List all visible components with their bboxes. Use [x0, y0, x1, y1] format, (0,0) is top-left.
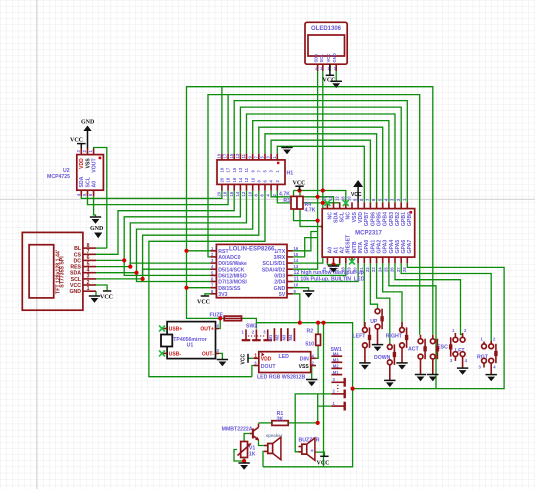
svg-text:ST7735S SPI: ST7735S SPI — [60, 256, 66, 288]
ground earth below ACT — [415, 375, 426, 382]
svg-text:MCP2317: MCP2317 — [355, 231, 382, 237]
svg-text:RES: RES — [70, 265, 81, 271]
svg-text:SCL: SCL — [71, 277, 82, 283]
svg-text:M1: M1 — [268, 334, 273, 340]
svg-text:SDA: SDA — [333, 212, 339, 223]
svg-text:GPB6: GPB6 — [370, 212, 376, 226]
svg-text:19: 19 — [347, 267, 352, 272]
wire net ESP D4 to MCP INTA — [293, 263, 358, 281]
svg-text:USB+: USB+ — [169, 327, 183, 333]
svg-text:11: 11 — [244, 167, 249, 172]
svg-text:SDA/4/D2: SDA/4/D2 — [262, 267, 285, 273]
ground earth below TP4056 OUT- — [217, 360, 228, 367]
slide switch SW2 — [242, 324, 273, 341]
ground earth below LEFT — [359, 363, 370, 370]
svg-text:D5/14/SCK: D5/14/SCK — [218, 267, 244, 273]
svg-text:D7/13/MOSI: D7/13/MOSI — [218, 280, 247, 286]
svg-text:GND: GND — [81, 120, 95, 126]
wire net H1 pin14 to TFT DC and branch ESP D6 — [96, 191, 240, 276]
wire net VCC to R3 R4 tops and MCP NC pin — [294, 187, 346, 202]
svg-text:5: 5 — [87, 261, 90, 267]
svg-text:20: 20 — [353, 267, 358, 272]
wire net GPA1 to UP button — [370, 263, 377, 308]
wire net GPA2 to DOWN button — [377, 263, 390, 343]
svg-text:GND: GND — [69, 289, 81, 295]
svg-text:20: 20 — [217, 191, 222, 196]
fuse FUZE — [209, 312, 241, 320]
svg-text:INTB: INTB — [352, 241, 358, 253]
pushbutton DOWN — [374, 344, 396, 381]
wire net MCP SDA up to SDA row — [318, 197, 334, 203]
svg-text:14: 14 — [235, 191, 240, 196]
wire net GPA4 down right of MCP to bottom bus — [389, 263, 436, 388]
svg-text:4: 4 — [87, 268, 90, 274]
wire net TFT BL right segment — [96, 247, 107, 249]
wire net power row horizontal — [242, 318, 353, 466]
ground earth below LFT — [457, 368, 468, 375]
no-connect X on MCP NC pin 16 — [343, 200, 349, 206]
svg-text:12: 12 — [334, 196, 339, 201]
ground flag GND below U2 earth — [90, 226, 104, 238]
svg-text:NC: NC — [327, 212, 333, 220]
pushbutton LEFT — [353, 322, 372, 363]
no-connect X on USB+ — [159, 326, 165, 332]
svg-text:17: 17 — [226, 167, 231, 172]
svg-text:13: 13 — [235, 153, 240, 158]
svg-text:VDD: VDD — [358, 212, 364, 223]
connector TFT display ST7735S — [22, 232, 96, 310]
svg-text:RIGHT: RIGHT — [386, 333, 403, 339]
svg-text:M2: M2 — [275, 334, 280, 340]
svg-text:VCC: VCC — [323, 78, 336, 84]
wire net H1 pin4 to GPB1 — [240, 107, 401, 202]
svg-text:M3: M3 — [333, 358, 339, 363]
svg-text:6: 6 — [87, 255, 90, 261]
wire net SW1 long vertical — [323, 323, 325, 467]
ground earth at H1 pin10 wire — [281, 146, 292, 154]
wire net H1 pin8 to GPB5 — [265, 134, 377, 203]
svg-text:19: 19 — [217, 153, 222, 158]
wire net H1 pin10b to TFT SDA and branch ESP D7 — [96, 191, 253, 282]
ground earth at ESP GND pin — [303, 291, 314, 298]
wire net SW1 to R1 right lead — [317, 406, 319, 423]
wire net V1 wiper loop — [234, 450, 244, 462]
wire net H1 pin5 to GPB2 — [247, 114, 396, 202]
power flag VCC at OLED pin3 — [323, 64, 336, 83]
svg-text:GPB4: GPB4 — [383, 212, 389, 226]
no-connect X on USB- — [159, 350, 165, 356]
ground earth below MCP A0 A1 A2 — [328, 266, 339, 273]
ground earth below ESC — [427, 375, 438, 382]
svg-text:GND: GND — [274, 286, 286, 292]
svg-text:15: 15 — [229, 153, 234, 158]
wire net H1 pin2b to I2C SCL row — [277, 191, 339, 203]
wire net GPA0 to LEFT button — [363, 263, 365, 326]
svg-text:9: 9 — [250, 170, 255, 173]
wire net ESP 5V down to power row — [293, 294, 300, 323]
wire net GPA3 to RIGHT button — [383, 263, 402, 326]
wire net R1 left lead to collector — [259, 422, 272, 424]
wire net GPA7 to right edge and bottom bus — [353, 263, 505, 388]
svg-text:R3: R3 — [283, 198, 290, 204]
wire net H1 pin7 to GPB4 — [259, 127, 383, 202]
svg-text:21: 21 — [359, 267, 364, 272]
svg-text:GPA7: GPA7 — [407, 240, 413, 254]
connector OLED1306 — [305, 22, 347, 71]
svg-text:14: 14 — [238, 177, 243, 182]
ground earth at OLED pin4 — [331, 81, 342, 88]
ground earth below RGT — [486, 375, 497, 382]
svg-text:LED: LED — [279, 354, 290, 360]
svg-text:LOLIN-ESP8266: LOLIN-ESP8266 — [229, 246, 275, 252]
svg-text:GPA5: GPA5 — [395, 240, 401, 254]
svg-text:4.7K: 4.7K — [305, 208, 316, 214]
svg-text:18: 18 — [223, 191, 228, 196]
svg-text:GPB1: GPB1 — [401, 212, 407, 226]
svg-text:8: 8 — [87, 243, 90, 249]
svg-text:A0: A0 — [327, 247, 333, 254]
wire net H1 pin6 to GPB3 — [253, 121, 389, 203]
svg-text:VDD: VDD — [261, 357, 272, 363]
svg-text:SCL: SCL — [340, 211, 346, 222]
svg-text:VCC: VCC — [100, 295, 113, 301]
svg-text:OUT-: OUT- — [202, 352, 214, 358]
wire net R2 bottom to LED DIN — [316, 345, 318, 358]
wire net OLED SDA vertical — [317, 71, 319, 221]
svg-text:12: 12 — [244, 177, 249, 182]
wire net emitter to speaker — [259, 440, 264, 446]
tactile button LFT — [449, 328, 468, 368]
wire net U2 SCL to H1 pin18 — [88, 191, 229, 205]
resistor R3 4.7K — [279, 192, 297, 210]
svg-text:1: 1 — [254, 353, 257, 359]
svg-text:SCL: SCL — [319, 54, 324, 63]
wire net R3 bottom to SDA vertical — [294, 209, 318, 221]
wire net base to V1 — [244, 434, 250, 442]
svg-text:GND: GND — [90, 226, 104, 232]
svg-text:U1: U1 — [187, 343, 194, 349]
svg-text:GND: GND — [332, 53, 337, 62]
svg-text:10: 10 — [250, 177, 255, 182]
svg-text:VDD: VDD — [79, 158, 85, 169]
svg-text:M3: M3 — [281, 334, 286, 340]
svg-text:USB-: USB- — [169, 352, 182, 358]
wire net buzzer plus to VCC — [315, 452, 325, 456]
svg-text:VCC: VCC — [70, 138, 83, 144]
svg-text:26: 26 — [390, 267, 395, 272]
svg-text:GPA6: GPA6 — [401, 240, 407, 254]
svg-text:GPB5: GPB5 — [377, 212, 383, 226]
svg-text:A1: A1 — [333, 247, 339, 254]
no-connect X on MCP NC pin 15 — [324, 200, 330, 206]
power flag VCC at buzzer — [317, 456, 330, 466]
wire net U2 A0 to ground — [94, 196, 96, 217]
svg-text:19: 19 — [220, 167, 225, 172]
ground earth below U2 — [90, 217, 101, 224]
svg-text:2/D4: 2/D4 — [274, 280, 285, 286]
svg-text:R2: R2 — [307, 329, 314, 335]
svg-text:4.7K: 4.7K — [279, 192, 290, 198]
svg-text:NC: NC — [346, 212, 352, 220]
svg-text:GPB2: GPB2 — [395, 212, 401, 226]
svg-text:SCL/5/D1: SCL/5/D1 — [262, 261, 285, 267]
wire net H1 pin1 / ESP RST / D8 / fuse feed — [187, 87, 433, 335]
wire net H1 pin8b to TFT SCL and branch ESP D5 — [96, 191, 259, 279]
svg-text:BL: BL — [74, 246, 82, 252]
svg-text:3/RX: 3/RX — [274, 255, 286, 261]
charger module TP4056 U1 — [161, 322, 220, 359]
svg-text:25: 25 — [384, 267, 389, 272]
svg-text:A0/ADC0: A0/ADC0 — [218, 255, 240, 261]
wire net ESP TX jog — [293, 232, 318, 251]
tactile button RGT — [477, 337, 498, 375]
svg-text:LEFT: LEFT — [353, 333, 367, 339]
axis line vertical — [36, 0, 38, 489]
svg-text:24: 24 — [377, 267, 382, 272]
wire net LED DOUT down — [252, 366, 254, 377]
wire net R4 bottom to SCL vertical — [300, 209, 323, 227]
resistor R2 510 — [305, 329, 320, 348]
no-connect X on MCP INTB — [349, 259, 355, 265]
wire net ESP RX jog — [293, 238, 318, 257]
slide switch SW1 — [331, 347, 345, 411]
ground flag GND top left — [81, 120, 95, 149]
svg-text:GPA1: GPA1 — [370, 240, 376, 254]
svg-text:GPA2: GPA2 — [377, 240, 383, 254]
svg-text:20: 20 — [220, 177, 225, 182]
svg-text:SCL: SCL — [85, 176, 91, 187]
svg-text:17: 17 — [223, 153, 228, 158]
svg-text:13: 13 — [294, 264, 299, 269]
svg-text:MCP4725: MCP4725 — [47, 174, 70, 180]
wire net buzzer left to SW1 net — [295, 394, 318, 452]
wire net H1 pin12 to TFT RES and branch ESP D0 — [96, 191, 247, 267]
power flag VCC arrow above MCP VDD — [351, 180, 363, 202]
svg-text:SDA: SDA — [70, 271, 81, 277]
svg-text:16: 16 — [232, 177, 237, 182]
io expander MCP2317 — [322, 196, 415, 272]
svg-text:0/D3: 0/D3 — [274, 274, 285, 280]
svg-text:10: 10 — [294, 283, 299, 288]
svg-text:10: 10 — [247, 191, 252, 196]
wire net R1 right lead — [288, 422, 318, 424]
svg-text:7: 7 — [87, 249, 90, 255]
wire net MCP A0 A1 A2 to ground — [327, 263, 339, 266]
ground earth at TFT GND pin — [89, 296, 100, 303]
svg-text:VSS: VSS — [352, 211, 358, 222]
svg-text:16: 16 — [294, 246, 299, 251]
ground earth below DOWN — [384, 380, 395, 387]
resistor R4 4.7K — [297, 196, 316, 213]
wire net OLED SCL vertical — [322, 71, 324, 227]
svg-text:VSS: VSS — [299, 364, 310, 370]
led module WS2812B — [254, 352, 316, 381]
svg-text:/RESET: /RESET — [346, 234, 352, 254]
resistor R1 3K — [272, 411, 288, 426]
wire net H1 pin9 to GPB6 — [271, 140, 370, 202]
power flag VCC at LED VDD — [241, 354, 249, 365]
svg-text:+: + — [311, 449, 314, 455]
svg-text:GPA3: GPA3 — [383, 240, 389, 254]
wire net ESP SDA row — [293, 221, 318, 270]
svg-text:DIN: DIN — [300, 357, 309, 363]
wire net SW1 pins 1-2 short — [318, 394, 332, 406]
power flag VCC at ESP 3V3 — [197, 296, 210, 306]
wire net H1 pin10 to GND and GPB7 — [277, 146, 364, 202]
svg-text:VCC: VCC — [241, 354, 247, 365]
connector H1 pin header — [217, 153, 294, 196]
svg-text:13: 13 — [238, 167, 243, 172]
svg-text:A2: A2 — [340, 247, 346, 254]
power flag VCC at TFT VCC pin — [100, 291, 113, 301]
pushbutton UP — [370, 308, 384, 345]
svg-text:GPB0: GPB0 — [407, 212, 413, 226]
svg-text:D8/15/SS: D8/15/SS — [218, 286, 241, 292]
wire net OLED pin4 to earth — [335, 71, 337, 81]
wire net H1 pin3 to GPB0 — [234, 101, 407, 203]
svg-text:GPA4: GPA4 — [389, 240, 395, 254]
wire net R2 top — [317, 323, 319, 335]
svg-text:VCC: VCC — [351, 192, 362, 198]
wire net ESP SCL row — [293, 227, 323, 264]
svg-text:22: 22 — [365, 267, 370, 272]
buzzer — [299, 438, 320, 461]
svg-text:VCC: VCC — [197, 300, 210, 306]
svg-text:GPB3: GPB3 — [389, 212, 395, 226]
wire net H1 pin2 / ESP A0 / ACT — [208, 95, 420, 335]
axis line horizontal — [0, 198, 535, 200]
pushbutton ACT — [408, 335, 427, 375]
svg-text:M1: M1 — [333, 370, 339, 375]
svg-text:SDA: SDA — [79, 176, 85, 187]
wire net TP4056 OUT- to earth — [216, 353, 223, 359]
svg-text:INTA: INTA — [358, 242, 364, 254]
svg-text:M4: M4 — [333, 351, 339, 356]
junction dots — [122, 188, 355, 463]
wire net H1 pin16 to TFT CS — [96, 191, 234, 255]
power flag VCC above R3 R4 — [293, 181, 306, 191]
wire net H1 pin6b long vertical to LED DOUT — [149, 191, 265, 377]
svg-text:ACT: ACT — [408, 347, 419, 353]
svg-text:M2: M2 — [333, 364, 339, 369]
wire net MCP SCL up to SCL row — [323, 201, 340, 204]
wire net U2 SDA to H1 pin20 — [81, 191, 222, 199]
svg-text:510: 510 — [305, 341, 314, 347]
dac U2 MCP4725 — [47, 149, 103, 197]
svg-text:MMBT2222A: MMBT2222A — [222, 426, 253, 432]
wire net TP4056 OUT+ to fuse lead — [216, 318, 221, 328]
svg-text:11 10k Pull-up, BUILTIN_LED: 11 10k Pull-up, BUILTIN_LED — [294, 276, 365, 282]
svg-text:M4: M4 — [288, 334, 293, 340]
svg-text:1K: 1K — [249, 452, 256, 458]
ground earth below UP — [372, 345, 383, 352]
power flag VCC above U2 — [70, 138, 86, 149]
ground earth below LED VSS — [306, 380, 317, 387]
SW2 mounting pins M1-M4 — [268, 328, 294, 341]
svg-text:H1: H1 — [287, 171, 294, 177]
ground earth below V1 — [238, 463, 249, 470]
svg-text:3V3: 3V3 — [218, 292, 227, 298]
svg-text:CS: CS — [74, 252, 82, 258]
wire net V1 bottom to earth — [243, 458, 245, 462]
svg-text:VOUT: VOUT — [91, 157, 97, 172]
wire net TFT GND to earth — [95, 291, 97, 295]
svg-text:23: 23 — [371, 267, 376, 272]
svg-text:11: 11 — [241, 153, 246, 158]
speaker — [264, 433, 283, 460]
svg-text:16: 16 — [229, 191, 234, 196]
svg-text:1/TX: 1/TX — [274, 249, 285, 255]
svg-text:A0: A0 — [91, 181, 97, 188]
ground earth below RIGHT — [396, 363, 407, 370]
svg-text:D0/16/Wake: D0/16/Wake — [218, 261, 247, 267]
svg-text:3K: 3K — [277, 416, 284, 422]
svg-text:FUZE: FUZE — [209, 312, 223, 318]
svg-text:15: 15 — [294, 252, 299, 257]
pushbutton RIGHT — [386, 322, 409, 363]
svg-text:VSS: VSS — [85, 158, 91, 169]
svg-text:GPB7: GPB7 — [364, 212, 370, 226]
svg-text:VCC: VCC — [70, 283, 81, 289]
wire net ESP GND row to earth — [293, 288, 309, 291]
svg-text:28: 28 — [402, 267, 407, 272]
svg-text:18: 18 — [340, 267, 345, 272]
pushbutton ESC — [430, 335, 448, 375]
wire net GPA5 to LFT button — [395, 263, 463, 334]
svg-text:3: 3 — [87, 274, 90, 280]
svg-text:GPA0: GPA0 — [364, 240, 370, 254]
svg-text:12: 12 — [241, 191, 246, 196]
svg-text:OLED1306: OLED1306 — [311, 26, 342, 32]
svg-text:1: 1 — [87, 286, 90, 292]
wire net speaker bottom to bottom row — [262, 451, 265, 466]
svg-text:RST: RST — [218, 249, 229, 255]
potentiometer V1 1K — [238, 442, 256, 458]
svg-text:27: 27 — [396, 267, 401, 272]
wire net ESP D3 to MCP RESET — [293, 263, 346, 275]
svg-text:5V: 5V — [279, 292, 286, 298]
wire net GPA6 to RGT button — [401, 263, 491, 341]
svg-text:VCC: VCC — [326, 54, 331, 63]
transistor MMBT2222A — [222, 424, 259, 441]
svg-text:DOUT: DOUT — [261, 364, 277, 370]
svg-text:15: 15 — [232, 167, 237, 172]
svg-text:18: 18 — [226, 177, 231, 182]
wire net LED VSS to earth — [312, 366, 316, 380]
svg-text:LED RGB WS2812B: LED RGB WS2812B — [257, 375, 306, 381]
svg-text:15: 15 — [322, 267, 327, 272]
wire net LED VDD to VCC flag — [248, 357, 254, 359]
svg-text:14: 14 — [294, 258, 299, 263]
wire net U2 VOUT to TFT BL — [94, 148, 107, 249]
wire net TFT VCC flag — [96, 285, 107, 291]
svg-text:OUT+: OUT+ — [200, 327, 214, 333]
svg-text:D6/12/MISO: D6/12/MISO — [218, 274, 247, 280]
wire net ESP 3V3 to VCC flag — [205, 294, 211, 296]
module ESP8266 LOLIN — [211, 244, 365, 298]
svg-text:VCC: VCC — [317, 461, 330, 467]
svg-text:DC: DC — [74, 258, 82, 264]
wire net H1 pin4b to I2C SDA row — [271, 191, 333, 197]
svg-text:2: 2 — [87, 280, 90, 286]
